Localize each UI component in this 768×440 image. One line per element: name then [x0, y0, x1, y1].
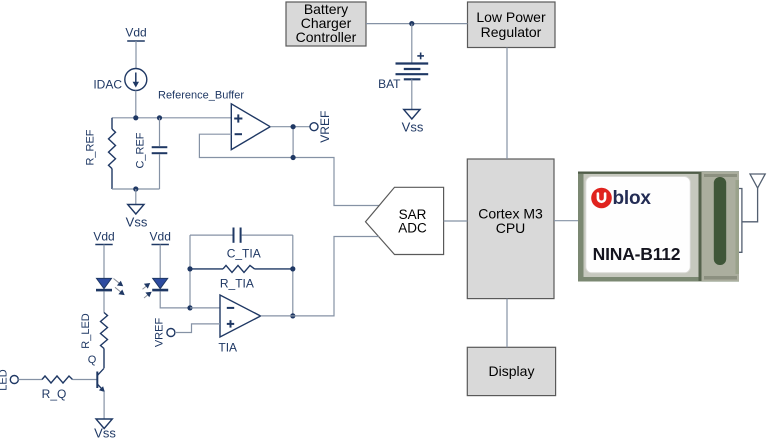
svg-text:Controller: Controller [296, 29, 357, 45]
node: R_TIA right [290, 266, 295, 271]
svg-text:Vdd: Vdd [150, 230, 171, 244]
wire: collector to R_LED [103, 367, 105, 369]
svg-text:Vss: Vss [402, 120, 424, 135]
svg-text:VREF: VREF [154, 318, 166, 348]
logo: u-blox [591, 188, 651, 209]
node: bottom rail junction [133, 186, 138, 191]
transistor Q NPN [97, 368, 105, 392]
wire: Low Power Regulator to Cortex CPU [506, 48, 508, 160]
wire: VREF to TIA plus input [175, 324, 220, 333]
node: C_REF junction [157, 115, 162, 120]
wire: SAR ADC to Cortex CPU [444, 220, 468, 222]
wire: bottom rail to ground [135, 189, 137, 205]
svg-text:Regulator: Regulator [481, 24, 542, 40]
resistor R_Q [42, 376, 73, 383]
current source IDAC [125, 69, 147, 91]
capacitor C_REF [152, 118, 168, 189]
block: Cortex M3 CPU [467, 159, 554, 299]
svg-text:TIA: TIA [218, 341, 237, 355]
svg-text:CPU: CPU [496, 220, 526, 236]
node: IDAC junction [133, 115, 138, 120]
svg-text:R_TIA: R_TIA [220, 276, 254, 290]
node: TIA output [290, 313, 295, 318]
wire: op-amp output to VREF terminal [270, 126, 310, 128]
op-amp U2 TIA [220, 295, 261, 337]
svg-text:BAT: BAT [378, 77, 401, 91]
wire: emitter to ground [103, 391, 105, 419]
label: + polarity of battery [417, 53, 424, 60]
antenna [739, 174, 765, 252]
svg-text:IDAC: IDAC [93, 78, 122, 92]
svg-text:Q: Q [88, 354, 97, 366]
svg-text:Reference_Buffer: Reference_Buffer [158, 90, 244, 102]
power: Vdd above LED [93, 230, 114, 245]
wire: output node down to feedback rail [292, 127, 294, 158]
ground: Vss under battery [404, 110, 420, 120]
wire: LED terminal to R_Q [18, 379, 42, 381]
wire: R_Q to transistor base [73, 379, 97, 381]
photodiode incoming light arrows [143, 283, 152, 298]
resistor R_TIA [190, 265, 293, 272]
svg-text:C_TIA: C_TIA [227, 247, 261, 261]
terminal: LED input circle [10, 376, 18, 384]
svg-text:R_Q: R_Q [42, 387, 67, 401]
svg-text:Vdd: Vdd [93, 230, 114, 244]
wire: node to TIA minus input [190, 307, 220, 309]
wire: feedback right vertical [292, 235, 294, 316]
resistor R_LED [101, 313, 108, 369]
svg-text:Low Power: Low Power [476, 9, 546, 25]
power: Vdd above photodiode [150, 230, 171, 245]
wire: node down to battery BAT [411, 24, 413, 63]
resistor R_REF [109, 118, 116, 189]
capacitor C_TIA [190, 228, 293, 243]
wire: Cortex CPU to NINA module [554, 220, 578, 222]
wire: photodiode cathode to TIA input node [160, 291, 190, 308]
svg-text:VREF: VREF [318, 111, 332, 143]
svg-text:Vdd: Vdd [125, 26, 146, 40]
svg-text:ADC: ADC [398, 220, 427, 235]
svg-text:C_REF: C_REF [135, 132, 147, 168]
wire: feedback from minus input [199, 134, 380, 205]
svg-text:NINA-B112: NINA-B112 [593, 244, 681, 264]
svg-text:blox: blox [613, 188, 652, 209]
op-amp U1 Reference_Buffer [231, 104, 270, 150]
wire: battery to ground [411, 79, 413, 109]
wire: Cortex CPU to Display [506, 299, 508, 348]
photodiode D1 [152, 278, 168, 290]
node: R_TIA left [187, 266, 192, 271]
wire: Vdd to photodiode anode [159, 245, 161, 279]
svg-text:LED: LED [0, 369, 10, 390]
wire: Vdd to IDAC [135, 41, 137, 69]
ground: Vss under R_REF [128, 205, 144, 215]
block: Battery Charger Controller [286, 1, 366, 46]
node: battery tap junction [409, 21, 414, 26]
wire: TIA output to SAR ADC [261, 237, 379, 316]
wire: feedback left vertical [189, 235, 191, 308]
node: output node [291, 124, 296, 129]
svg-text:Vss: Vss [126, 215, 148, 230]
module: u-blox NINA-B112 photo [578, 172, 739, 282]
wire: IDAC to top rail [135, 91, 137, 118]
svg-text:R_LED: R_LED [80, 313, 92, 349]
terminal: VREF output circle [310, 123, 318, 131]
battery BAT [396, 64, 429, 80]
svg-text:R_REF: R_REF [85, 129, 97, 165]
SAR ADC converter [366, 187, 444, 254]
wire: Battery Charger Controller to Low Power Regulator [366, 23, 468, 25]
svg-text:Display: Display [489, 363, 535, 379]
LED emission arrows [114, 279, 125, 296]
diode LED indicator [96, 278, 112, 290]
wire: top rail of R_REF C_REF to op-amp input [112, 117, 231, 119]
block: Low Power Regulator [468, 2, 556, 48]
terminal: VREF input circle [167, 329, 175, 337]
wire: Vdd to LED anode [103, 245, 105, 279]
node: feedback rail node [291, 155, 296, 160]
power: Vdd above IDAC [125, 26, 146, 42]
svg-text:Vss: Vss [94, 426, 116, 440]
node: TIA inverting input [187, 305, 192, 310]
wire: bottom rail of R_REF C_REF [112, 188, 160, 190]
ground: Vss under transistor [96, 419, 112, 429]
block: Display [467, 347, 555, 395]
wire: LED cathode to R_LED [103, 291, 105, 312]
